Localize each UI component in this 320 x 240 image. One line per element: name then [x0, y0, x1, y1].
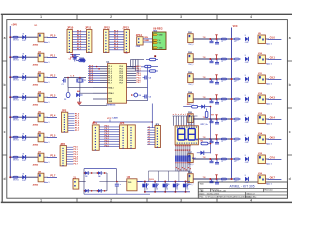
capacitor CR1b	[216, 59, 218, 62]
digit 8 right	[188, 129, 195, 140]
wire segment c	[178, 116, 180, 126]
svg-text:D9: D9	[139, 95, 141, 97]
svg-text:P1.3: P1.3	[50, 95, 56, 98]
wire B1.0	[109, 31, 124, 33]
capacitor CR3b	[216, 99, 218, 102]
fuse FR5a	[221, 138, 226, 140]
wire output right 3	[265, 98, 269, 100]
capacitor CR2a	[211, 79, 213, 81]
wire JP3 pin 3	[66, 151, 73, 153]
node junction L4	[9, 116, 11, 118]
transistor Q4	[173, 184, 176, 188]
wire segdown 3	[181, 145, 183, 156]
wire JP6 pin 8	[147, 144, 155, 146]
wire VCC mid	[94, 121, 152, 123]
resistor RN7	[187, 156, 189, 162]
wire pin P0.6 right MCU	[127, 79, 137, 81]
svg-text:90: 90	[157, 184, 159, 186]
wire A1.5	[72, 44, 86, 46]
wire JP2 pin 7	[68, 127, 75, 129]
optocoupler U2	[38, 53, 44, 62]
wire VCC rail MCU right	[127, 87, 148, 89]
vertical rail right display	[210, 107, 212, 154]
capacitor CR6b	[216, 159, 218, 162]
fuse F4	[13, 96, 18, 98]
diode DB1	[85, 171, 88, 175]
wire channel R7	[193, 178, 234, 180]
svg-text:c: c	[4, 130, 6, 134]
wire crystal top	[64, 77, 86, 79]
wire diode row top	[84, 172, 107, 174]
svg-text:P1.2: P1.2	[108, 71, 112, 73]
diode D5	[22, 115, 25, 119]
svg-text:P0.5: P0.5	[120, 78, 124, 80]
wire pin P0.5 right MCU	[127, 77, 137, 79]
resistor RR7	[234, 178, 239, 180]
capacitor C7	[116, 182, 118, 184]
svg-text:P1.7: P1.7	[108, 82, 112, 84]
svg-text:O6.5: O6.5	[270, 136, 276, 139]
svg-text:a: a	[289, 36, 291, 40]
svg-text:90: 90	[167, 184, 169, 186]
svg-text:a1: a1	[148, 141, 150, 143]
resistor R6	[201, 142, 208, 145]
svg-text:P1.1: P1.1	[50, 55, 56, 58]
wire A1.0	[72, 31, 86, 33]
wire output P1.2	[44, 76, 48, 78]
svg-text:Drawn By:: Drawn By:	[247, 197, 257, 199]
node junction R3b	[231, 98, 233, 100]
svg-text:VIN: VIN	[144, 37, 148, 39]
wire JP3 pin 6	[66, 158, 73, 160]
svg-text:a1: a1	[148, 139, 150, 141]
wire JP4-JP5 0	[99, 126, 119, 128]
wire pin X3 MCU	[93, 98, 108, 100]
svg-text:R5: R5	[201, 141, 203, 143]
wire pin P0.0 right MCU	[127, 66, 137, 68]
node junction L2	[9, 76, 11, 78]
fuse F6	[13, 136, 18, 138]
power flag R3	[216, 95, 218, 98]
wire channel L0	[10, 36, 38, 38]
fuse FR1a	[221, 58, 226, 60]
wire output right 2	[265, 78, 269, 80]
wire JP4-JP5 1	[99, 128, 119, 130]
capacitor CR2b	[216, 79, 218, 82]
wire JP6 pin 5	[147, 136, 155, 138]
wire output right 1	[265, 58, 269, 60]
optocoupler UR8	[258, 175, 265, 184]
wire pin P1.3 left MCU	[88, 72, 100, 74]
svg-text:d: d	[289, 177, 291, 181]
power flag R2	[216, 75, 218, 78]
wire output P1.3	[44, 96, 48, 98]
wire channel R4	[193, 118, 234, 120]
power pin mark	[154, 55, 156, 57]
power flag R4	[216, 115, 218, 118]
optocoupler U4	[38, 93, 44, 102]
zone tick marks	[76, 14, 78, 19]
wire output P1.5	[44, 136, 48, 138]
svg-text:O2.1: O2.1	[270, 56, 276, 59]
svg-text:PB4_6: PB4_6	[188, 164, 193, 166]
transistor Q1	[142, 184, 145, 188]
wire base routing bus	[148, 170, 190, 172]
resistor RN2	[177, 156, 179, 162]
svg-text:P0.3: P0.3	[120, 73, 124, 75]
wire Q5 base up	[188, 171, 190, 182]
svg-text:a1: a1	[148, 131, 150, 133]
capacitor CR5b	[216, 139, 218, 142]
resistor RR1	[234, 58, 239, 60]
node junction R1b	[231, 58, 233, 60]
wire emitter bus Q	[144, 191, 190, 193]
svg-text:2: 2	[110, 15, 112, 19]
svg-text:a1: a1	[148, 136, 150, 138]
resistor RR6	[234, 158, 239, 160]
pin arrow 4 U9	[153, 47, 157, 49]
fuse FR0a	[221, 38, 226, 40]
svg-text:PB4_2: PB4_2	[188, 84, 193, 86]
wire Q3 vert	[164, 182, 166, 184]
wire Q2 base up	[158, 171, 160, 182]
node junction R1a	[209, 58, 211, 60]
wire channel R0	[193, 38, 234, 40]
wire segment e	[183, 116, 185, 126]
node junction R4a	[209, 118, 211, 120]
node junction R6a	[209, 158, 211, 160]
wire A1.4	[72, 41, 86, 43]
wire JP4-JP5 8	[99, 146, 119, 148]
svg-text:90: 90	[188, 184, 190, 186]
svg-text:P0.7: P0.7	[120, 82, 124, 84]
diode DR4	[245, 97, 248, 101]
diode DB4	[98, 189, 101, 193]
wire Q5 vert	[185, 182, 187, 184]
capacitor CR4b	[216, 119, 218, 122]
wire channel L6	[10, 156, 38, 158]
diode DR8	[245, 177, 248, 181]
capacitor CR7a	[211, 179, 213, 181]
wire pin P1.1 left MCU	[88, 68, 100, 70]
wire channel L7	[10, 176, 38, 178]
wire JP6 pin 1	[147, 127, 155, 129]
optocoupler UR1	[258, 35, 265, 44]
wire segdown 4	[183, 145, 185, 156]
wire JP4-JP5 2	[99, 131, 119, 133]
resistor R10	[141, 66, 145, 68]
connector JP10	[67, 30, 72, 53]
wire JP3 pin 5	[66, 156, 73, 158]
wire segdown 6	[187, 145, 189, 156]
node junction R0a	[209, 38, 211, 40]
pin arrow 1 U9	[153, 34, 157, 36]
node junction R2a	[209, 78, 211, 80]
svg-text:O8.7: O8.7	[270, 176, 276, 179]
capacitor CR4a	[211, 119, 213, 121]
optocoupler UR7	[258, 155, 265, 164]
wire output right 7	[265, 178, 269, 180]
fuse FR3a	[221, 98, 226, 100]
transistor Q5	[183, 184, 186, 188]
svg-text:O3.2: O3.2	[270, 76, 276, 79]
node junction R5b	[231, 138, 233, 140]
sheet inner border	[7, 20, 288, 199]
wire segment g	[188, 116, 190, 126]
wire pin P1.4 left MCU	[88, 75, 100, 77]
resistor R9 reset	[79, 59, 85, 61]
connector JP12	[104, 30, 109, 53]
wire output right 6	[265, 158, 269, 160]
fuse F2	[13, 56, 18, 58]
wire JP2 pin 3	[68, 118, 75, 120]
optocoupler UR5	[258, 115, 265, 124]
diode DR6	[245, 137, 248, 141]
wire VIN	[143, 38, 152, 40]
capacitor CR1a	[211, 59, 213, 61]
resistor RR2	[234, 78, 239, 80]
svg-text:P0.1: P0.1	[120, 69, 124, 71]
wire output right 4	[265, 118, 269, 120]
svg-text:VCC: VCC	[107, 118, 112, 120]
optocoupler UR6	[258, 135, 265, 144]
wire display feed bus	[173, 115, 198, 117]
node junction R5a	[209, 138, 211, 140]
svg-text:C2: C2	[64, 99, 66, 101]
diode DR2	[245, 57, 248, 61]
node junction R6b	[231, 158, 233, 160]
crystal Y1	[79, 78, 81, 82]
wire JP4-JP5 3	[99, 133, 119, 135]
wire pin P1.5 left MCU	[88, 77, 100, 79]
fuse FR6a	[221, 158, 226, 160]
svg-text:Q1-5: Q1-5	[149, 179, 155, 181]
resistor RN8	[189, 156, 191, 162]
connector JP13	[124, 30, 129, 53]
wire JP6 pin 4	[147, 134, 155, 136]
svg-text:a1: a1	[148, 129, 150, 131]
capacitor CR6a	[211, 159, 213, 161]
svg-text:GND: GND	[159, 35, 164, 37]
node junction R0b	[231, 38, 233, 40]
wire JP2 pin 5	[68, 122, 75, 124]
svg-text:7805: 7805	[128, 182, 132, 184]
optocoupler U1	[38, 33, 44, 42]
pin arrow 3 U9	[153, 42, 157, 44]
svg-text:c: c	[289, 130, 291, 134]
fuse F7	[13, 156, 18, 158]
wire JP6 pin 7	[147, 141, 155, 143]
resistor RR5	[234, 138, 239, 140]
wire collector bus Q	[137, 181, 190, 183]
svg-text:O1.0: O1.0	[270, 36, 276, 39]
svg-text:DPY_2x: DPY_2x	[201, 124, 209, 126]
svg-text:a: a	[4, 36, 6, 40]
resistor RN5	[183, 156, 185, 162]
diode DR3	[245, 77, 248, 81]
switch S1 below JP10	[70, 54, 80, 56]
optocoupler U3	[38, 73, 44, 82]
wire ground rail	[79, 104, 107, 106]
diode DR1	[245, 37, 248, 41]
wire bridge bottom	[84, 193, 150, 195]
wire pin P0.1 right MCU	[127, 68, 137, 70]
wire pin P1.7 left MCU	[88, 82, 100, 84]
svg-text:P1.5: P1.5	[50, 135, 56, 138]
wire pin X2 MCU	[93, 92, 108, 94]
wire segment d	[180, 116, 182, 126]
wire A1.2	[72, 36, 86, 38]
wire B1.7	[109, 49, 124, 51]
capacitor C1	[67, 78, 69, 88]
wire segment b	[175, 116, 177, 126]
svg-text:O5.4: O5.4	[270, 116, 276, 119]
wire pin X1 MCU	[93, 87, 108, 89]
svg-text:GND: GND	[144, 40, 149, 42]
capacitor CR5a	[211, 139, 213, 141]
net VCC bus right	[231, 28, 233, 180]
wire JP4-JP5 7	[99, 143, 119, 145]
wire output P1.0	[44, 36, 48, 38]
net +24V bus left	[9, 26, 11, 177]
svg-text:a1: a1	[148, 143, 150, 145]
svg-text:b: b	[289, 83, 291, 87]
resistor RN6	[185, 156, 187, 162]
wire JP3 pin 7	[66, 161, 73, 163]
wire GND	[143, 41, 152, 43]
diode DR7	[245, 157, 248, 161]
svg-text:3: 3	[180, 199, 182, 203]
fuse F1	[13, 36, 18, 38]
wire channel L1	[10, 56, 38, 58]
ground crystal	[78, 98, 80, 102]
fuse FR4a	[221, 118, 226, 120]
capacitor CR3a	[211, 99, 213, 101]
optocoupler UR2	[258, 55, 265, 64]
node junction L1	[9, 56, 11, 58]
svg-text:P1.0: P1.0	[108, 66, 112, 68]
svg-text:C1: C1	[62, 84, 64, 86]
svg-text:VCC: VCC	[233, 25, 238, 28]
fuse FR2a	[221, 78, 226, 80]
wire pin P0.7 right MCU	[127, 82, 137, 84]
wire B1.2	[109, 36, 124, 38]
wire Q1 base up	[147, 171, 149, 182]
node junction L3	[9, 96, 11, 98]
diode D11	[201, 105, 204, 109]
wire segdown 7	[189, 145, 191, 156]
svg-text:4: 4	[250, 15, 252, 19]
wire Q1 vert	[144, 182, 146, 184]
wire JP6 pin 3	[147, 132, 155, 134]
wire JP2 pin 6	[68, 125, 75, 127]
wire pin P0.2 right MCU	[127, 70, 137, 72]
wire pin P1.0 left MCU	[88, 66, 100, 68]
wire bridge top	[79, 181, 86, 183]
wire A1.6	[72, 46, 86, 48]
power flag R7	[216, 175, 218, 178]
capacitor C2	[66, 92, 70, 97]
wire segment h	[190, 116, 192, 126]
diode D2	[22, 55, 25, 59]
svg-text:O7.6: O7.6	[270, 156, 276, 159]
svg-text:d: d	[3, 177, 5, 181]
node junction R4b	[231, 118, 233, 120]
wire JP2 pin 1	[68, 113, 75, 115]
fuse FR7a	[221, 178, 226, 180]
svg-text:PB4_0: PB4_0	[188, 44, 193, 46]
svg-text:C5: C5	[149, 96, 151, 98]
node junction R2b	[231, 78, 233, 80]
wire JP3 pin 4	[66, 153, 73, 155]
wire JP2 pin 4	[68, 120, 75, 122]
wire B1.3	[109, 39, 124, 41]
svg-text:90: 90	[147, 184, 149, 186]
svg-text:P1.1: P1.1	[108, 69, 112, 71]
fuse F8	[13, 176, 18, 178]
svg-text:P1.7: P1.7	[50, 175, 56, 178]
node junction L0	[9, 36, 11, 38]
power flag R6	[216, 155, 218, 158]
wire channel L4	[10, 116, 38, 118]
wire output right 5	[265, 138, 269, 140]
wire channel L2	[10, 76, 38, 78]
sheet outer border	[1, 13, 292, 15]
transistor Q3	[163, 184, 166, 188]
wire segdown 1	[177, 145, 179, 156]
svg-text:P0.6: P0.6	[120, 80, 124, 82]
wire B1.6	[109, 46, 124, 48]
capacitor CR0b	[216, 39, 218, 42]
wire regulator out	[137, 181, 142, 183]
svg-text:ATMEL - KIT 305: ATMEL - KIT 305	[229, 184, 254, 188]
svg-text:b: b	[3, 83, 5, 87]
power flag R0	[216, 35, 218, 38]
svg-text:1: 1	[40, 199, 42, 203]
wire segdown 0	[175, 145, 177, 156]
svg-text:P0.0: P0.0	[120, 66, 124, 68]
connector JP_PWR	[137, 37, 143, 45]
capacitor C4	[144, 76, 146, 80]
resistor RR3	[234, 98, 239, 100]
transistor Q2	[153, 184, 156, 188]
svg-text:Revision: Revision	[265, 190, 274, 192]
7-segment display DS1	[175, 126, 198, 145]
wire Q2 vert	[154, 182, 156, 184]
wire segment .	[193, 116, 195, 126]
svg-text:PWR: PWR	[136, 46, 141, 48]
optocoupler UR4	[258, 95, 265, 104]
svg-text:P1.3: P1.3	[108, 73, 112, 75]
wire Q3 base up	[168, 171, 170, 182]
wire output right 0	[265, 38, 269, 40]
wire channel R5	[193, 138, 234, 140]
wire JP3 pin 2	[66, 149, 73, 151]
wire to cap	[116, 169, 118, 182]
optocoupler U8	[38, 173, 44, 182]
svg-text:a1: a1	[148, 134, 150, 136]
node junction L5	[9, 136, 11, 138]
svg-text:C6: C6	[69, 58, 71, 60]
resistor R8	[183, 106, 191, 108]
diode D1	[22, 35, 25, 39]
resistor R11	[150, 58, 156, 60]
svg-text:4: 4	[250, 199, 252, 203]
diode D8	[22, 175, 25, 179]
wire output P1.7	[44, 176, 48, 178]
wire channel L3	[10, 96, 38, 98]
svg-text:a1: a1	[148, 127, 150, 129]
